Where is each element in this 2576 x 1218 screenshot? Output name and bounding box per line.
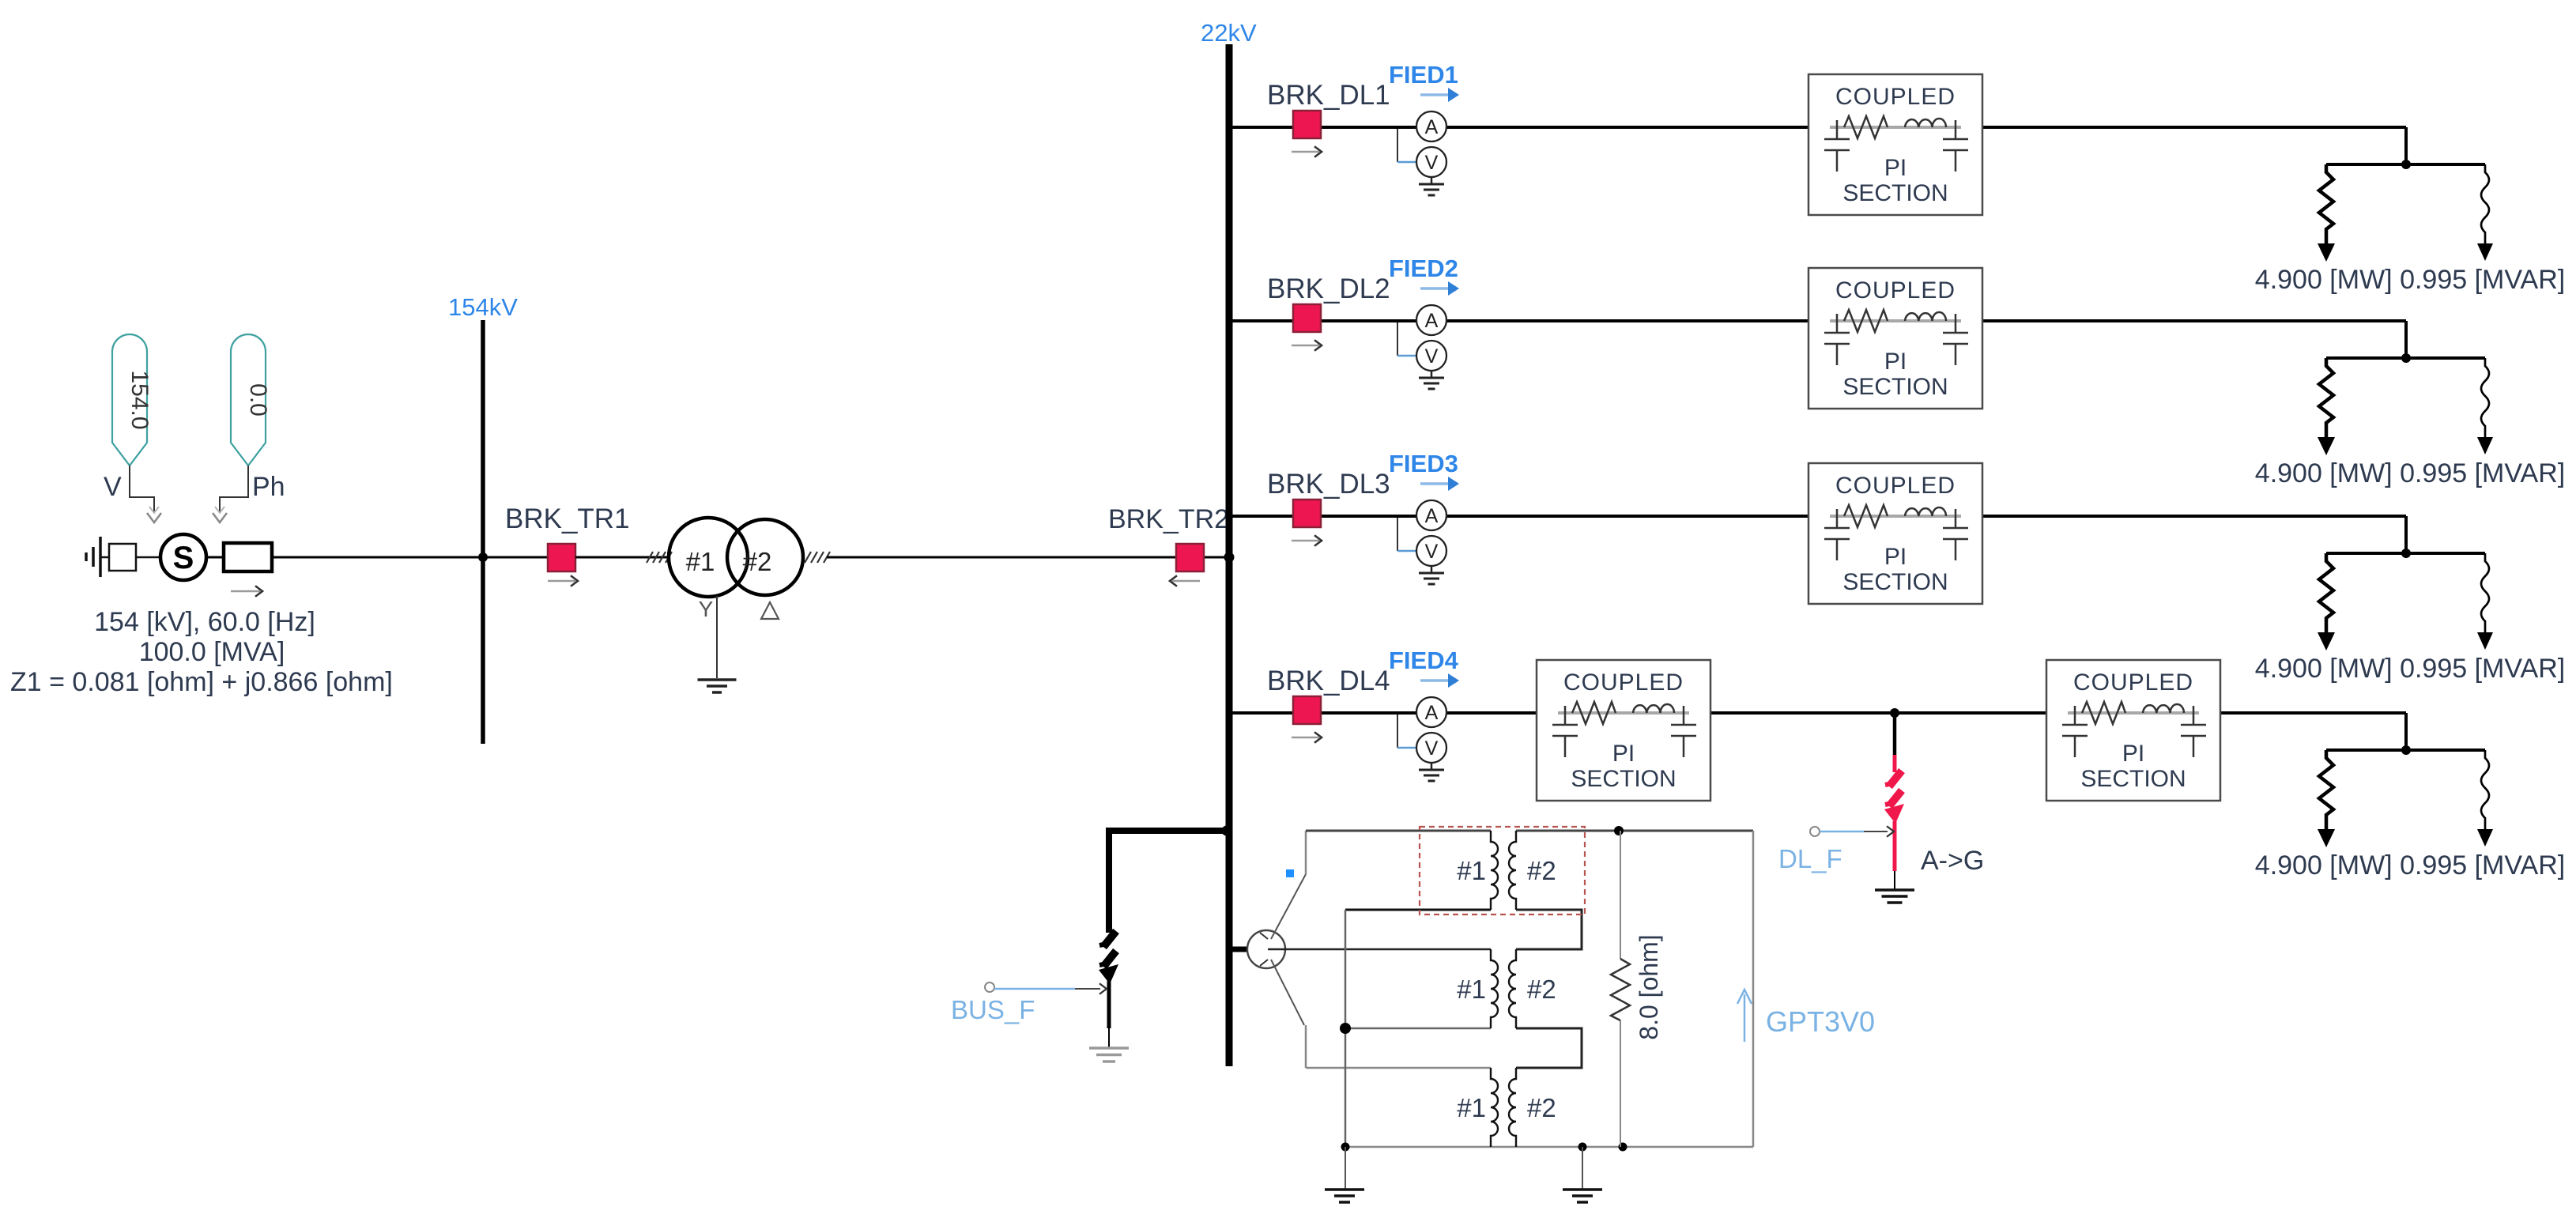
switch arm middle (1268, 948, 1491, 951)
node ground2 (1578, 1143, 1587, 1152)
node rail/phase (1340, 1023, 1351, 1034)
node resistor bottom (1619, 1143, 1627, 1152)
svg-text:0.0: 0.0 (245, 383, 271, 417)
resistor 8 ohm zigzag (1611, 959, 1630, 1020)
svg-text:Y: Y (699, 597, 714, 621)
bus 154kV (481, 320, 485, 744)
svg-text:100.0 [MVA]: 100.0 [MVA] (139, 637, 285, 667)
coupled PI section feeder 4 (second) (2046, 660, 2220, 801)
GPT3V0 arrow (1744, 994, 1746, 1042)
svg-text:8.0 [ohm]: 8.0 [ohm] (1635, 934, 1663, 1039)
transformer T1 winding hash left (647, 552, 653, 563)
ground (BUS_F) (1089, 1046, 1129, 1050)
svg-text:BRK_DL4: BRK_DL4 (1267, 666, 1390, 696)
arrow BRK_TR2 (1172, 580, 1200, 583)
voltmeter feeder 2 (1416, 341, 1446, 371)
ground (voltmeter feeder 4) (1419, 770, 1444, 781)
wire source to 154kV bus (206, 556, 224, 559)
source interface box (109, 544, 136, 571)
arrow FIED1 (1420, 93, 1449, 96)
svg-text:BRK_TR1: BRK_TR1 (505, 503, 630, 534)
node resistor top (1614, 826, 1624, 835)
ground (T1 neutral) (698, 678, 737, 681)
arrow FIED2 (1420, 287, 1449, 290)
wire T1 to BRK_TR2 (827, 556, 1226, 559)
svg-text:FIED3: FIED3 (1389, 450, 1458, 477)
svg-text:BRK_DL2: BRK_DL2 (1267, 273, 1390, 304)
ground (GPT left) (1325, 1188, 1364, 1191)
node DL_F tap (1890, 708, 1899, 718)
resistor 8 ohm wire (1620, 831, 1621, 959)
red dashed selection box (1420, 827, 1585, 914)
arrow BRK_DL2 (1292, 345, 1319, 347)
arrow BRK_TR1 (548, 580, 575, 583)
ground (source) (99, 537, 102, 577)
delta symbol (761, 602, 779, 619)
wire ground rail 2 (1582, 1147, 1583, 1190)
source impedance (224, 543, 272, 571)
ground (voltmeter feeder 3) (1419, 573, 1444, 584)
node bus fault (1222, 826, 1232, 836)
svg-text:FIED1: FIED1 (1389, 61, 1458, 89)
arrow under impedance (231, 590, 260, 593)
coupled PI section feeder 2 (1808, 268, 1982, 409)
node on 154kV bus (478, 552, 488, 562)
transformer T1 circles (669, 518, 748, 597)
GPT winding pair 1 (1457, 831, 1556, 910)
svg-text:#1: #1 (686, 547, 715, 576)
GPT winding pair 2 (1457, 949, 1556, 1028)
switch arm top (1271, 874, 1306, 939)
voltmeter feeder 1 (1416, 147, 1446, 177)
wire T1 neutral to ground (716, 596, 718, 678)
fault DL_F bolt (1893, 755, 1897, 772)
wire slider Ph (220, 466, 248, 512)
svg-text:FIED2: FIED2 (1389, 255, 1458, 282)
breaker BRK_DL2 (1293, 304, 1321, 332)
svg-text:154.0: 154.0 (126, 370, 153, 429)
switch position dot (1286, 869, 1294, 877)
svg-text:4.900 [MW] 0.995 [MVAR]: 4.900 [MW] 0.995 [MVAR] (2255, 850, 2565, 881)
wire feeder DL2 (1229, 319, 1808, 322)
wire ground rail 1 (1345, 1147, 1346, 1190)
wire meter tap feeder 4 (1397, 715, 1398, 748)
switch contacts (1260, 933, 1268, 939)
ground (voltmeter feeder 1) (1419, 184, 1444, 195)
wire meter tap feeder 3 (1397, 518, 1398, 551)
staple #2a-#2b (1516, 910, 1582, 949)
switch arm bottom (1271, 960, 1304, 1025)
load feeder 4 (2318, 745, 2493, 847)
breaker BRK_DL4 (1293, 696, 1321, 724)
bus 22kV (1226, 44, 1233, 1066)
ammeter feeder 1 (1416, 111, 1446, 141)
svg-text:FIED4: FIED4 (1389, 647, 1459, 674)
coupled PI section feeder 1 (1808, 74, 1982, 215)
load feeder 1 (2318, 160, 2493, 262)
slider V (154.0) (112, 334, 147, 466)
node TR2/bus (1224, 552, 1235, 563)
staple #2b-#2c (1516, 1028, 1582, 1068)
node rail bottom (1341, 1143, 1350, 1152)
GPT neutral rail (1345, 910, 1347, 1147)
wire slider V (130, 466, 154, 512)
svg-text:4.900 [MW] 0.995 [MVAR]: 4.900 [MW] 0.995 [MVAR] (2255, 265, 2565, 295)
svg-text:S: S (173, 541, 194, 575)
wire GPT #1b bottom (1345, 1028, 1491, 1030)
svg-text:Ph: Ph (252, 472, 285, 502)
ground (GPT right) (1563, 1188, 1602, 1191)
wire voltmeter ground feeder 2 (1431, 371, 1433, 377)
load feeder 2 (2318, 353, 2493, 455)
wire feeder DL1 (1229, 126, 1808, 129)
coupled PI section feeder 3 (1808, 463, 1982, 604)
svg-text:Z1 = 0.081 [ohm] + j0.866 [ohm: Z1 = 0.081 [ohm] + j0.866 [ohm] (10, 667, 393, 697)
arrow FIED3 (1420, 482, 1449, 485)
svg-text:#2: #2 (743, 547, 772, 576)
breaker BRK_TR2 (1176, 544, 1204, 571)
svg-text:22kV: 22kV (1201, 19, 1257, 47)
wire voltmeter ground feeder 4 (1431, 763, 1433, 769)
label DL_F pointer (1810, 827, 1820, 836)
wire feeder DL3 (1229, 515, 1808, 518)
ammeter feeder 4 (1416, 697, 1446, 727)
wire voltmeter ground feeder 3 (1431, 566, 1433, 572)
wire meter tap feeder 1 (1397, 129, 1398, 162)
svg-text:DL_F: DL_F (1778, 844, 1842, 873)
switch stub from bus (1232, 947, 1248, 952)
svg-text:A->G: A->G (1921, 846, 1984, 876)
svg-text:154 [kV], 60.0 [Hz]: 154 [kV], 60.0 [Hz] (94, 607, 315, 637)
wire meter tap feeder 2 (1397, 322, 1398, 356)
arrow FIED4 (1420, 679, 1449, 682)
svg-text:BRK_DL3: BRK_DL3 (1267, 469, 1390, 500)
GPT winding pair 3 (1457, 1068, 1556, 1147)
svg-text:GPT3V0: GPT3V0 (1766, 1005, 1875, 1038)
breaker BRK_DL1 (1293, 111, 1321, 138)
arrow BRK_DL1 (1292, 151, 1319, 153)
coupled PI section feeder 4 (first) (1537, 660, 1710, 801)
svg-text:BUS_F: BUS_F (951, 995, 1035, 1024)
svg-text:BRK_DL1: BRK_DL1 (1267, 80, 1390, 111)
svg-text:154kV: 154kV (448, 293, 518, 321)
wire GPT right loop (1752, 831, 1755, 1147)
wire bus fault branch (1106, 828, 1229, 834)
wire voltmeter ground feeder 1 (1431, 177, 1433, 183)
wire GPT #1a bottom to rail (1345, 909, 1491, 911)
wire DL_F drop (1893, 713, 1897, 756)
wire feeder DL4 (1229, 711, 1537, 715)
ammeter feeder 2 (1416, 305, 1446, 335)
wire BRK_TR1 to transformer (575, 556, 670, 559)
arrow BRK_DL4 (1292, 737, 1319, 739)
load feeder 3 (2318, 549, 2493, 650)
fault BUS_F bolt (1103, 931, 1116, 947)
arrow BRK_DL3 (1292, 540, 1319, 542)
svg-text:4.900 [MW] 0.995 [MVAR]: 4.900 [MW] 0.995 [MVAR] (2255, 654, 2565, 684)
voltmeter feeder 4 (1416, 733, 1446, 763)
transformer T1 winding hash right (805, 552, 811, 563)
wire GPT phase A top (1306, 830, 1491, 832)
wire GPT secondary top (1516, 830, 1753, 832)
svg-text:4.900 [MW] 0.995 [MVAR]: 4.900 [MW] 0.995 [MVAR] (2255, 458, 2565, 488)
svg-text:V: V (104, 472, 122, 502)
slider Ph (0.0) (231, 334, 266, 466)
breaker BRK_TR1 (548, 544, 575, 571)
ground (DL_F) (1875, 888, 1914, 892)
breaker BRK_DL3 (1293, 500, 1321, 527)
voltmeter feeder 3 (1416, 536, 1446, 566)
voltage source U1 (160, 534, 206, 580)
ground (voltmeter feeder 2) (1419, 378, 1444, 389)
label BUS_F pointer (985, 982, 994, 992)
svg-text:BRK_TR2: BRK_TR2 (1108, 504, 1229, 534)
ammeter feeder 3 (1416, 500, 1446, 530)
wire GPT bottom (1345, 1146, 1753, 1148)
switch circle (1247, 930, 1285, 968)
